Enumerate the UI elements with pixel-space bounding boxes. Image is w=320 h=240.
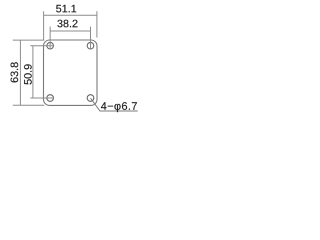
dim 51.1 right extension — [96, 11, 98, 37]
dim text 51.1 — [56, 5, 76, 12]
dim 63.8 top extension — [13, 39, 45, 41]
dim text 63.8 — [11, 62, 19, 82]
hole leader line — [91, 98, 138, 111]
dim text 50.9 — [24, 64, 32, 84]
screw hole bottom-right — [87, 95, 94, 102]
dim 50.9 bottom extension — [30, 97, 53, 99]
screw hole top-right — [87, 42, 94, 49]
dim 63.8 bottom extension — [13, 104, 45, 106]
neck plate outline — [44, 40, 98, 105]
screw hole top-left — [47, 42, 54, 49]
screw hole bottom-left — [47, 95, 54, 102]
dim 51.1 left extension — [43, 11, 45, 40]
dim 50.9 line — [32, 46, 34, 98]
dim 50.9 top extension — [30, 45, 53, 47]
dim 38.2 left extension — [49, 27, 51, 50]
dim text 38.2 — [57, 20, 77, 28]
dim 38.2 line — [50, 30, 90, 32]
dim 38.2 right extension — [90, 27, 92, 50]
dim 51.1 line — [44, 14, 97, 16]
dim 63.8 line — [19, 40, 21, 105]
hole spec text 4-phi6.7 — [101, 102, 137, 112]
